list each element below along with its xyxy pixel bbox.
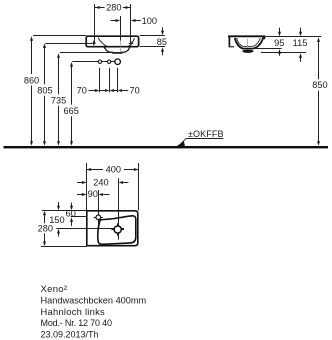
- side view drain: [242, 50, 253, 53]
- extension line bowl bottom (95): [254, 48, 282, 50]
- extension line rim height 860: [33, 35, 86, 37]
- fixing hole cross right: [129, 42, 134, 44]
- dim 85 arrow bottom: [162, 51, 164, 55]
- extension line fixing 805: [45, 43, 92, 45]
- dim 60 arrows: [71, 203, 73, 207]
- extension line plan bottom edge: [41, 246, 87, 248]
- front view inner bowl right curve: [128, 38, 135, 47]
- dim 280 line: [95, 7, 105, 9]
- side view bowl outer profile: [235, 37, 263, 48]
- dim 280 extension line right: [130, 4, 132, 44]
- dim 280 extension line left: [94, 4, 96, 45]
- svg-text:280: 280: [106, 2, 121, 12]
- side view left wall: [228, 36, 230, 46]
- svg-text:240: 240: [93, 177, 108, 187]
- extension line 400 right: [138, 163, 140, 210]
- supply hole left: [98, 60, 101, 63]
- extension line 400 left: [86, 163, 88, 210]
- dim 100 line right part: [135, 20, 141, 22]
- dim 95 arrows: [279, 28, 281, 32]
- dim 860 line: [31, 38, 33, 74]
- hole extension line 3: [117, 68, 119, 92]
- svg-text:805: 805: [37, 86, 52, 96]
- dim 85 arrow top: [162, 27, 164, 31]
- dim 85 extension line top: [140, 35, 165, 37]
- extension line drain centre vertical: [118, 178, 120, 239]
- floor line OKFFB: [4, 146, 329, 148]
- svg-text:860: 860: [24, 75, 39, 85]
- svg-text:400: 400: [106, 165, 121, 175]
- svg-text:±OKFFB: ±OKFFB: [188, 129, 224, 139]
- svg-text:Xeno²: Xeno²: [41, 284, 68, 295]
- hole extension line 1: [99, 68, 101, 92]
- dim 150 arrows: [58, 202, 60, 206]
- level mark underline: [186, 138, 223, 140]
- svg-text:115: 115: [293, 38, 308, 48]
- side view bowl inner profile: [237, 38, 261, 47]
- extension line rim right: [266, 36, 322, 38]
- plan view outer body: [87, 211, 138, 246]
- svg-text:100: 100: [142, 16, 157, 26]
- svg-text:Handwaschbcken 400mm: Handwaschbcken 400mm: [41, 295, 147, 305]
- side view left wall foot: [229, 46, 235, 48]
- dim 90 line: [77, 194, 82, 196]
- svg-text:850: 850: [312, 80, 327, 90]
- dim 850 line: [318, 39, 320, 79]
- svg-text:95: 95: [274, 38, 284, 48]
- supply hole middle: [107, 60, 110, 63]
- svg-text:735: 735: [51, 96, 66, 106]
- level mark triangle: [177, 141, 185, 146]
- svg-text:23.09.2013/Th: 23.09.2013/Th: [41, 330, 99, 340]
- drain hole: [115, 59, 121, 65]
- dim 70/70 line: [89, 90, 96, 92]
- dim 665 line: [71, 64, 73, 105]
- side view right wall stub: [263, 36, 265, 39]
- dim 100 extension line (tap hole centre): [120, 16, 122, 41]
- extension line tap hole vertical: [98, 190, 100, 228]
- tap hole mark: [96, 215, 101, 220]
- dim 85 extension line bottom: [140, 46, 166, 48]
- svg-text:90: 90: [88, 189, 98, 199]
- level mark diagonal: [179, 138, 187, 146]
- extension line 665 to holes: [72, 61, 114, 63]
- dim 115 arrows: [300, 28, 302, 32]
- side view rim: [228, 35, 265, 37]
- side view centreline: [247, 39, 249, 47]
- front view inner bowl left curve: [98, 38, 108, 47]
- front view basin body: [86, 36, 138, 47]
- drain mark: [114, 226, 121, 233]
- svg-text:665: 665: [64, 106, 79, 116]
- front view bowl underside with drain boss: [104, 47, 130, 53]
- dim 735 line: [58, 55, 60, 94]
- dim 280 plan line: [44, 215, 46, 223]
- extension line bowl underside 735: [60, 52, 124, 54]
- dim 805 line: [44, 45, 46, 84]
- plan view bowl outline: [98, 216, 136, 245]
- svg-text:70: 70: [77, 85, 87, 95]
- svg-text:70: 70: [129, 85, 139, 95]
- extension line drain centre left: [56, 228, 124, 230]
- fixing hole cross left: [91, 42, 96, 44]
- svg-text:85: 85: [157, 37, 167, 47]
- svg-text:Mod.- Nr. 12 70 40: Mod.- Nr. 12 70 40: [41, 318, 112, 328]
- svg-text:60: 60: [66, 209, 76, 219]
- extension line plan top edge: [42, 210, 87, 212]
- extension line drain bottom (115): [261, 52, 306, 54]
- dim 100 line left part: [111, 20, 116, 22]
- extension line tap hole centre left: [71, 216, 88, 218]
- svg-text:Hahnloch links: Hahnloch links: [41, 306, 106, 317]
- dim 400 line: [87, 169, 104, 171]
- svg-text:280: 280: [38, 223, 53, 233]
- dim 240 line: [77, 182, 82, 184]
- hole extension line 2: [109, 68, 111, 92]
